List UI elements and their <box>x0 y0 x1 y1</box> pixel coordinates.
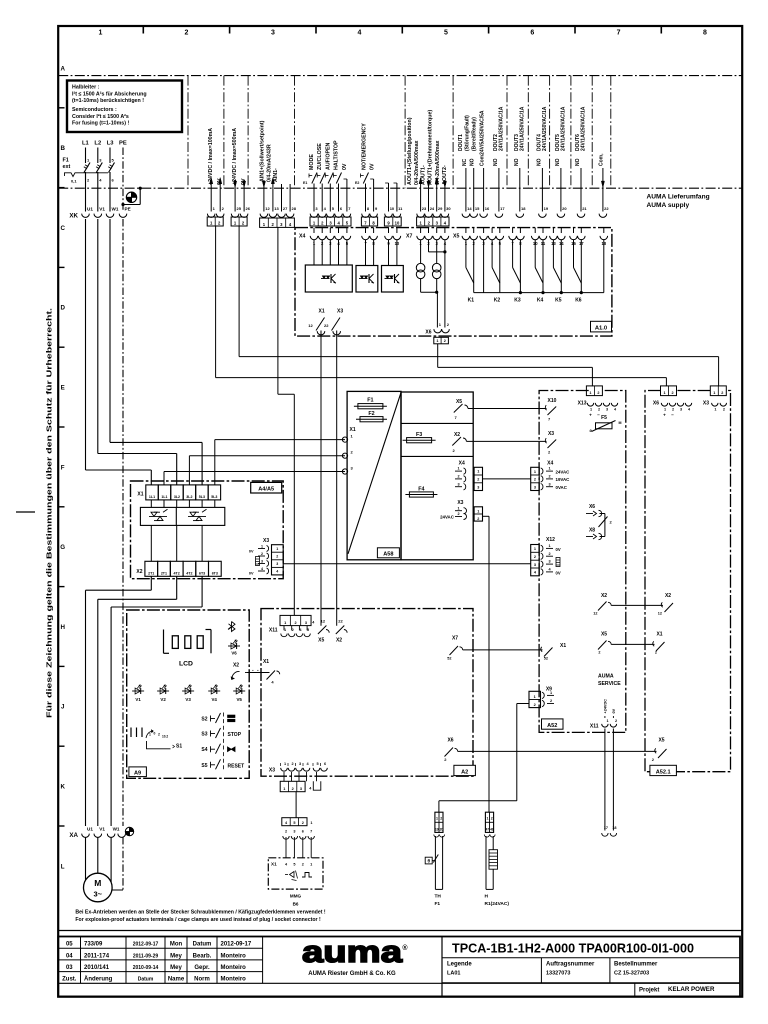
svg-text:1: 1 <box>284 621 286 625</box>
svg-text:24: 24 <box>430 206 435 211</box>
svg-text:24V/1A/250VAC/1A: 24V/1A/250VAC/1A <box>498 106 504 151</box>
wire X1.2 A58 tap <box>189 455 345 457</box>
svg-text:X11: X11 <box>269 628 278 634</box>
wire X6 to X5-2 <box>458 750 657 752</box>
svg-text:Bei Ex-Antrieben werden an: Bei Ex-Antrieben werden an Stelle der St… <box>75 910 326 916</box>
svg-text:1: 1 <box>714 408 716 412</box>
wire C feed to X11 A2 <box>277 227 279 394</box>
svg-text:SERVICE: SERVICE <box>598 681 621 687</box>
svg-text:3: 3 <box>457 482 459 486</box>
svg-text:7: 7 <box>310 829 312 833</box>
svg-text:47: 47 <box>485 827 489 831</box>
svg-text:1: 1 <box>261 544 263 548</box>
svg-text:1: 1 <box>310 863 312 867</box>
svg-text:04: 04 <box>66 953 73 959</box>
internal links X1-triac-X2 <box>150 500 152 508</box>
svg-text:3: 3 <box>680 408 682 412</box>
svg-text:Halbleiter :: Halbleiter : <box>72 85 100 91</box>
svg-text:26: 26 <box>246 206 251 211</box>
svg-text:®: ® <box>402 944 408 952</box>
svg-text:Mey: Mey <box>170 953 182 959</box>
svg-text:19: 19 <box>435 827 439 831</box>
svg-text:C: C <box>60 225 65 232</box>
wire X7.4 down to X6.2 <box>444 240 446 328</box>
svg-text:NO: NO <box>536 158 542 166</box>
svg-text:Com24V/5A/250VAC/5A: Com24V/5A/250VAC/5A <box>480 110 486 166</box>
svg-text:S1: S1 <box>176 744 182 750</box>
svg-text:0V: 0V <box>249 572 254 576</box>
svg-text:3: 3 <box>534 485 536 489</box>
svg-text:X10: X10 <box>548 398 557 404</box>
svg-text:X3: X3 <box>337 309 343 315</box>
svg-text:For fusing (t=1-10ms) !: For fusing (t=1-10ms) ! <box>72 121 129 127</box>
svg-text:X3: X3 <box>263 538 269 544</box>
fuse F1 A58 <box>358 404 383 409</box>
svg-text:14: 14 <box>467 206 472 211</box>
svg-text:3: 3 <box>534 563 536 567</box>
svg-text:X2: X2 <box>233 663 239 669</box>
svg-text:+: + <box>663 413 666 418</box>
svg-text:S5: S5 <box>201 763 207 769</box>
svg-text:AIN1+(Sollwert/setpoint): AIN1+(Sollwert/setpoint) <box>260 120 266 182</box>
wire L1 to 1L1 <box>85 219 87 470</box>
svg-text:A2: A2 <box>461 769 468 775</box>
svg-text:12: 12 <box>321 619 326 624</box>
svg-text:X4: X4 <box>547 461 553 467</box>
svg-text:AUMA Riester GmbH & Co. KG: AUMA Riester GmbH & Co. KG <box>308 971 396 977</box>
svg-text:29: 29 <box>438 206 443 211</box>
svg-text:2: 2 <box>534 703 536 707</box>
svg-text:RESET: RESET <box>228 764 245 770</box>
svg-text:L1: L1 <box>82 141 90 147</box>
svg-text:12: 12 <box>308 323 313 328</box>
svg-text:LA01: LA01 <box>447 971 460 977</box>
svg-text:0/4-20mA/500max: 0/4-20mA/500max <box>435 140 441 185</box>
current source 1 <box>420 240 422 264</box>
svg-text:F4: F4 <box>418 486 424 492</box>
svg-text:AUF/OPEN: AUF/OPEN <box>325 142 331 170</box>
svg-text:AOUT1+(Drehmoment/torque): AOUT1+(Drehmoment/torque) <box>428 110 434 185</box>
svg-text:2: 2 <box>598 651 600 655</box>
svg-text:K2: K2 <box>494 298 501 304</box>
svg-text:L2: L2 <box>94 141 101 147</box>
speaker icon <box>290 872 295 878</box>
svg-text:V1: V1 <box>135 697 141 702</box>
svg-text:A9: A9 <box>134 771 141 777</box>
group DOUT wires <box>465 168 467 212</box>
svg-text:2T1: 2T1 <box>161 571 167 575</box>
svg-text:X2: X2 <box>665 593 671 599</box>
svg-text:F1: F1 <box>367 398 373 404</box>
heater symbol X12 <box>556 558 560 567</box>
svg-text:2: 2 <box>440 817 442 821</box>
svg-text:J: J <box>61 704 65 711</box>
svg-text:2: 2 <box>534 555 536 559</box>
svg-text:22: 22 <box>324 323 329 328</box>
svg-text:2010/141: 2010/141 <box>84 965 110 971</box>
svg-text:5: 5 <box>293 863 295 867</box>
svg-text:0VAC: 0VAC <box>556 485 568 490</box>
svg-text:NO: NO <box>470 158 476 166</box>
svg-text:F3: F3 <box>416 432 422 438</box>
svg-text:24V/1A/250VAC/1A: 24V/1A/250VAC/1A <box>560 106 566 151</box>
wire X1-12 down to A2 X5 <box>320 331 322 626</box>
svg-text:13: 13 <box>274 206 279 211</box>
earth symbol <box>126 192 136 202</box>
svg-text:Monteiro: Monteiro <box>221 965 247 971</box>
svg-text:2: 2 <box>671 391 673 395</box>
svg-text:1: 1 <box>548 467 550 471</box>
svg-text:X1: X1 <box>560 643 566 649</box>
svg-text:1L1: 1L1 <box>149 495 155 499</box>
svg-text:CZ 15-327#03: CZ 15-327#03 <box>614 971 649 977</box>
svg-text:V4: V4 <box>212 697 218 702</box>
svg-text:2: 2 <box>548 552 550 556</box>
svg-text:1L1: 1L1 <box>161 495 167 499</box>
svg-text:X4: X4 <box>299 234 305 240</box>
svg-text:27: 27 <box>283 206 288 211</box>
svg-text:B6: B6 <box>293 902 299 907</box>
svg-text:NO: NO <box>493 158 499 166</box>
svg-text:Monteiro: Monteiro <box>221 953 247 959</box>
svg-text:2: 2 <box>457 475 459 479</box>
svg-text:X1: X1 <box>319 309 325 315</box>
svg-text:22: 22 <box>604 206 609 211</box>
svg-text:2: 2 <box>598 408 600 412</box>
optocoupler bank 3 <box>382 266 404 293</box>
svg-text:X1: X1 <box>656 632 662 638</box>
svg-text:2: 2 <box>477 517 479 521</box>
svg-text:0: 0 <box>154 732 156 736</box>
svg-text:24VAC: 24VAC <box>556 469 571 474</box>
group 24VDC 100mA wires <box>210 178 213 184</box>
svg-text:X6: X6 <box>653 401 659 407</box>
svg-text:NC: NC <box>462 158 468 166</box>
svg-text:X6: X6 <box>425 330 431 336</box>
svg-text:5L3: 5L3 <box>199 495 205 499</box>
svg-text:+24VDC / Imax=100mA: +24VDC / Imax=100mA <box>208 128 214 185</box>
svg-text:AUMA supply: AUMA supply <box>647 202 690 209</box>
svg-text:K4: K4 <box>537 298 544 304</box>
svg-text:2: 2 <box>672 408 674 412</box>
svg-text:V1: V1 <box>99 827 105 832</box>
svg-text:M: M <box>94 878 101 888</box>
svg-text:AOUT1+(Stellung/position): AOUT1+(Stellung/position) <box>407 117 413 185</box>
svg-text:Semiconductors :: Semiconductors : <box>72 107 117 113</box>
button icons <box>228 715 236 718</box>
svg-text:5: 5 <box>444 30 448 37</box>
svg-text:XK: XK <box>69 213 78 220</box>
svg-text:1: 1 <box>534 695 536 699</box>
svg-text:V2: V2 <box>160 697 166 702</box>
svg-text:A4/A5: A4/A5 <box>258 487 274 493</box>
svg-text:2: 2 <box>655 651 657 655</box>
svg-text:1: 1 <box>548 544 550 548</box>
motor feed wires <box>85 837 87 880</box>
svg-text:F: F <box>61 464 65 471</box>
triac module <box>140 507 224 525</box>
svg-text:STOP: STOP <box>228 732 242 738</box>
svg-text:X5: X5 <box>453 234 459 240</box>
svg-text:17: 17 <box>604 826 608 830</box>
svg-text:For explosion-proof actuator: For explosion-proof actuators terminals … <box>75 917 321 923</box>
svg-text:17: 17 <box>500 206 505 211</box>
X3 pin5 stub box <box>316 772 318 781</box>
connector box group C <box>260 218 295 227</box>
svg-text:5L3: 5L3 <box>211 495 217 499</box>
svg-text:+24VDC / Imax=500mA: +24VDC / Imax=500mA <box>232 128 238 185</box>
PE wire down <box>122 219 124 826</box>
svg-text:F1: F1 <box>63 158 69 164</box>
title block <box>58 930 742 932</box>
svg-text:NOT/EMERGENCY: NOT/EMERGENCY <box>362 123 368 170</box>
svg-text:1: 1 <box>436 817 438 821</box>
wires X11 to terminals 17 18 <box>604 729 606 831</box>
svg-text:U1: U1 <box>87 827 93 832</box>
svg-text:E1: E1 <box>303 181 307 185</box>
wire B feed to X3 A52.1 <box>238 226 240 357</box>
svg-text:X5: X5 <box>658 738 664 744</box>
svg-text:05: 05 <box>66 942 73 948</box>
AUMA supply boundary line <box>58 187 742 189</box>
svg-text:2011-174: 2011-174 <box>84 953 110 959</box>
control board A2 <box>261 609 473 777</box>
svg-text:2011-09-29: 2011-09-29 <box>133 953 159 959</box>
svg-text:1: 1 <box>284 762 286 766</box>
svg-text:B: B <box>60 145 65 152</box>
svg-text:Datum: Datum <box>138 977 154 983</box>
svg-text:0,1: 0,1 <box>71 179 77 184</box>
svg-text:1: 1 <box>436 339 438 343</box>
wire 2T1 to motor U1 <box>150 576 152 590</box>
wire X2 to X3 <box>466 440 546 442</box>
svg-text:3: 3 <box>548 482 550 486</box>
earth symbol XA <box>125 827 133 835</box>
wire 4T2 to motor V1 <box>176 576 178 599</box>
svg-text:2012-09-17: 2012-09-17 <box>133 942 159 948</box>
svg-text:10: 10 <box>395 220 400 225</box>
connector box group E <box>361 217 377 226</box>
svg-text:6T3: 6T3 <box>212 571 218 575</box>
svg-text:AUMA Lieferumfang: AUMA Lieferumfang <box>647 194 710 201</box>
svg-text:12: 12 <box>265 206 270 211</box>
svg-text:52: 52 <box>447 657 451 661</box>
logic board A1.0 <box>295 228 612 337</box>
svg-text:Für diese Zeichnung gelten die: Für diese Zeichnung gelten die Bestimmun… <box>45 308 54 718</box>
svg-text:−: − <box>597 413 600 418</box>
svg-text:V6: V6 <box>231 651 237 656</box>
svg-text:2: 2 <box>261 552 263 556</box>
connector box group B <box>231 217 247 226</box>
svg-text:2: 2 <box>444 339 446 343</box>
svg-text:X1: X1 <box>137 492 143 498</box>
fuse F4 <box>409 492 433 497</box>
optocoupler bank 1 <box>305 265 352 292</box>
svg-text:24V/1A/250VAC/1A: 24V/1A/250VAC/1A <box>581 106 587 151</box>
svg-text:Gepr.: Gepr. <box>194 965 210 971</box>
row ruler ticks <box>58 107 64 109</box>
wire X3.3 to X12 A52 <box>283 563 531 565</box>
svg-text:0V: 0V <box>612 708 616 713</box>
svg-text:V5: V5 <box>237 697 243 702</box>
svg-text:A58: A58 <box>383 552 393 558</box>
svg-text:X3: X3 <box>457 500 463 506</box>
svg-text:10: 10 <box>390 206 395 211</box>
svg-text:3~: 3~ <box>94 890 103 899</box>
svg-text:2: 2 <box>534 478 536 482</box>
svg-text:K6: K6 <box>575 298 582 304</box>
svg-text:0V: 0V <box>370 163 376 170</box>
svg-text:2: 2 <box>721 391 723 395</box>
svg-text:XA: XA <box>69 832 78 839</box>
svg-text:20: 20 <box>562 206 567 211</box>
svg-text:30: 30 <box>446 206 451 211</box>
svg-text:2: 2 <box>158 733 160 737</box>
group AOUT clamps <box>417 214 425 218</box>
svg-text:X7: X7 <box>452 636 458 642</box>
svg-text:12: 12 <box>658 612 662 616</box>
svg-text:8: 8 <box>703 30 707 37</box>
svg-text:16: 16 <box>485 206 490 211</box>
svg-text:F2: F2 <box>368 411 374 417</box>
svg-text:6: 6 <box>324 762 326 766</box>
svg-text:NO: NO <box>514 158 520 166</box>
svg-text:X6: X6 <box>589 504 595 510</box>
svg-text:X5: X5 <box>456 399 462 405</box>
svg-text:0/4-20mA/500max: 0/4-20mA/500max <box>414 140 420 185</box>
svg-text:2: 2 <box>185 30 189 37</box>
svg-text:2010-09-14: 2010-09-14 <box>133 965 159 971</box>
fuse F3 <box>407 438 432 443</box>
svg-text:1: 1 <box>477 470 479 474</box>
svg-text:2: 2 <box>723 408 725 412</box>
wire X6 A1.0 to X13 A52 <box>437 344 439 368</box>
svg-text:1: 1 <box>590 408 592 412</box>
svg-text:A1.0: A1.0 <box>595 325 607 331</box>
svg-text:3: 3 <box>299 762 301 766</box>
svg-text:(Bereit/Ready): (Bereit/Ready) <box>472 117 478 151</box>
svg-text:(t=1-10ms) berücksichtigen !: (t=1-10ms) berücksichtigen ! <box>72 98 144 104</box>
svg-text:W1: W1 <box>112 207 119 212</box>
svg-text:X6: X6 <box>447 738 453 744</box>
svg-text:2: 2 <box>597 391 599 395</box>
svg-text:S2: S2 <box>201 717 207 723</box>
svg-text:2: 2 <box>294 621 296 625</box>
group 24VDC 500mA wires <box>234 181 237 187</box>
svg-text:Name: Name <box>168 977 185 983</box>
group EMERGENCY clamps <box>362 214 370 218</box>
svg-text:G: G <box>60 544 65 551</box>
svg-text:2: 2 <box>285 829 287 833</box>
svg-text:3: 3 <box>477 485 479 489</box>
svg-text:D: D <box>60 305 65 312</box>
phase wires to boundary <box>85 180 87 212</box>
svg-text:X13: X13 <box>578 401 587 407</box>
svg-text:4: 4 <box>276 570 278 574</box>
svg-text:Bearb.: Bearb. <box>193 953 212 959</box>
svg-text:18: 18 <box>521 206 526 211</box>
svg-text:1: 1 <box>534 470 536 474</box>
svg-text:NO: NO <box>575 158 581 166</box>
revision table <box>58 947 262 949</box>
svg-text:1: 1 <box>550 691 552 695</box>
svg-text:MODE: MODE <box>309 154 315 170</box>
svg-text:X2: X2 <box>136 569 142 575</box>
svg-text:Bestellnummer: Bestellnummer <box>614 962 658 968</box>
svg-text:I²t ≤ 1500 A²s für Absicherung: I²t ≤ 1500 A²s für Absicherung <box>72 92 147 98</box>
svg-text:4T2: 4T2 <box>186 571 192 575</box>
svg-text:1: 1 <box>276 547 278 551</box>
wire 6T3 to motor W1 <box>201 576 203 607</box>
svg-text:3: 3 <box>271 30 275 37</box>
svg-text:X12: X12 <box>546 537 555 543</box>
svg-text:Legende: Legende <box>447 962 472 968</box>
svg-text:6: 6 <box>530 30 534 37</box>
svg-text:4: 4 <box>358 30 362 37</box>
upper boundary line <box>58 75 742 77</box>
svg-text:12: 12 <box>593 612 597 616</box>
column ruler ticks <box>142 26 144 34</box>
svg-text:3L2: 3L2 <box>174 495 180 499</box>
svg-text:HALT/STOP: HALT/STOP <box>334 140 340 170</box>
wire X7.2 to X7.4 <box>428 240 430 252</box>
F1 mech link <box>65 173 109 177</box>
svg-text:K3: K3 <box>514 298 521 304</box>
svg-text:Datum: Datum <box>193 942 212 948</box>
svg-text:MMG: MMG <box>290 894 302 899</box>
svg-text:2: 2 <box>550 699 552 703</box>
svg-text:1: 1 <box>589 391 591 395</box>
svg-text:Monteiro: Monteiro <box>221 977 247 983</box>
svg-text:TH: TH <box>435 894 442 900</box>
wire L2 <box>97 148 99 164</box>
semiconductor note box <box>67 81 182 133</box>
svg-text:1: 1 <box>607 719 609 723</box>
svg-text:F1: F1 <box>435 901 441 907</box>
svg-text:0V: 0V <box>342 163 348 170</box>
svg-text:19: 19 <box>544 206 549 211</box>
svg-text:1: 1 <box>487 817 489 821</box>
svg-text:2: 2 <box>548 475 550 479</box>
svg-text:U1: U1 <box>87 207 93 212</box>
svg-text:(Störung/Fault): (Störung/Fault) <box>465 115 471 151</box>
svg-text:Änderung: Änderung <box>84 976 113 983</box>
svg-text:3: 3 <box>261 559 263 563</box>
group AOUT wires <box>419 178 422 184</box>
fuse F2 A58 <box>360 417 383 422</box>
svg-text:X2: X2 <box>336 638 342 644</box>
svg-text:1: 1 <box>310 821 312 825</box>
svg-text:3: 3 <box>276 562 278 566</box>
svg-text:R1(24VAC): R1(24VAC) <box>485 901 510 907</box>
PE junction to earth <box>139 187 142 190</box>
svg-text:2: 2 <box>477 478 479 482</box>
svg-text:X1: X1 <box>350 427 356 433</box>
pulse icon <box>302 873 312 878</box>
heater symbol X3 <box>256 557 260 566</box>
svg-text:1: 1 <box>99 30 103 37</box>
svg-text:A52.1: A52.1 <box>656 769 671 775</box>
svg-text:S4: S4 <box>201 747 207 753</box>
MMG plug connector <box>282 818 307 826</box>
LEDs V1-V5 <box>132 690 144 692</box>
LCD display <box>163 630 165 654</box>
svg-text:−: − <box>671 413 674 418</box>
svg-text:1: 1 <box>713 391 715 395</box>
svg-text:24V/1A/250VAC/1A: 24V/1A/250VAC/1A <box>542 106 548 151</box>
svg-text:0V: 0V <box>249 549 254 553</box>
svg-text:1: 1 <box>283 787 285 791</box>
